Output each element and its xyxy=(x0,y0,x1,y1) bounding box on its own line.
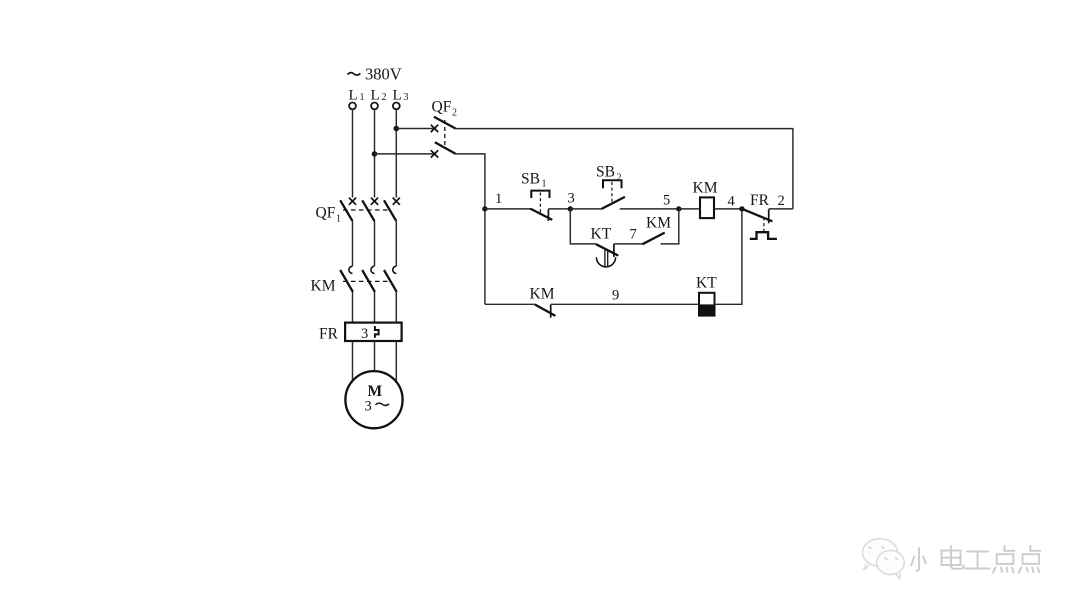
contactor KM main contact 3 xyxy=(384,266,397,292)
label L1 xyxy=(349,88,365,104)
junction L2 to QF2 pole2 xyxy=(372,151,378,157)
watermark icon bubbles xyxy=(863,539,905,579)
svg-text:3: 3 xyxy=(365,399,372,415)
svg-text:3: 3 xyxy=(404,92,409,103)
svg-text:SB: SB xyxy=(521,171,540,188)
svg-text:QF: QF xyxy=(432,99,452,116)
contactor KM NC contact xyxy=(535,305,556,318)
label L2 xyxy=(371,88,387,104)
node 5 junction xyxy=(676,206,681,211)
wire QF1 pole2 to KM xyxy=(374,221,376,266)
wire KM coil to node4 xyxy=(714,208,742,210)
svg-text:KM: KM xyxy=(311,278,336,295)
wire QF2 pole2 to node 1 xyxy=(456,154,485,209)
terminal L1 xyxy=(349,103,356,110)
svg-text:1: 1 xyxy=(336,214,341,225)
wire node3 to SB2 xyxy=(570,208,602,210)
wire FR to motor phase3 xyxy=(395,341,397,381)
time relay coil KT xyxy=(698,293,715,317)
svg-text:380V: 380V xyxy=(365,65,402,84)
junction L3 to QF2 pole1 xyxy=(394,126,400,132)
wire L3 to QF2 pole1 xyxy=(396,128,436,130)
motor M xyxy=(345,371,402,428)
svg-text:7: 7 xyxy=(630,227,637,243)
svg-text:FR: FR xyxy=(319,326,339,343)
watermark text 点 (first) xyxy=(993,546,1015,573)
wire KM3 to FR box xyxy=(395,292,397,323)
svg-text:KT: KT xyxy=(696,275,717,292)
svg-text:3: 3 xyxy=(568,191,575,207)
wire KM aux to node5 xyxy=(661,209,679,244)
thermal relay FR heater box xyxy=(345,323,402,341)
wire L3 vertical xyxy=(395,109,397,197)
svg-text:2: 2 xyxy=(452,108,457,119)
wire KT coil up to node4 xyxy=(715,209,742,304)
wire L2 to QF2 pole2 xyxy=(375,153,437,155)
svg-text:M: M xyxy=(368,383,383,400)
wire SB1 to node3 xyxy=(548,208,570,210)
FR heater element symbol xyxy=(375,326,379,338)
svg-text:5: 5 xyxy=(663,193,670,209)
wire QF1 pole1 to KM xyxy=(352,221,354,266)
pushbutton SB1 label xyxy=(521,171,547,190)
svg-text:2: 2 xyxy=(778,193,785,209)
svg-text:KM: KM xyxy=(530,286,555,303)
pushbutton SB1 (NC) xyxy=(530,191,552,221)
thermal relay FR contact (NC) xyxy=(743,209,777,239)
wire FR contact to right vertical xyxy=(769,208,793,210)
wire KM2 to FR box xyxy=(374,292,376,323)
svg-text:KM: KM xyxy=(693,180,718,197)
node 3 junction xyxy=(568,206,573,211)
watermark text 电 xyxy=(942,546,964,569)
wire FR to motor phase2 xyxy=(374,341,376,371)
terminal L2 xyxy=(371,103,378,110)
svg-text:L: L xyxy=(349,88,358,104)
svg-text:1: 1 xyxy=(495,191,502,207)
contactor KM aux contact (NO) xyxy=(643,233,665,245)
wire left rail to KM NC xyxy=(485,303,535,305)
pushbutton SB2 (NO) xyxy=(602,180,625,209)
time relay KT delayed contact xyxy=(596,244,618,267)
svg-text:QF: QF xyxy=(316,205,336,222)
svg-text:FR: FR xyxy=(750,192,770,209)
svg-text:2: 2 xyxy=(382,92,387,103)
pushbutton SB2 label xyxy=(596,164,622,184)
wire L2 vertical xyxy=(374,109,376,197)
svg-text:SB: SB xyxy=(596,164,615,181)
breaker QF1 linkage dashed xyxy=(343,209,391,211)
svg-text:3: 3 xyxy=(361,326,368,342)
wire node1 to SB1 xyxy=(485,208,531,210)
breaker QF1 pole 2 xyxy=(362,198,378,222)
contactor KM main contact 1 xyxy=(340,266,353,292)
svg-text:KT: KT xyxy=(591,226,612,243)
node 1 junction xyxy=(482,206,487,211)
wire node1 down left rail xyxy=(484,209,486,304)
label L3 xyxy=(393,88,409,104)
breaker QF2 linkage dashed xyxy=(444,120,446,148)
breaker QF2 label xyxy=(432,99,458,119)
wire L1 vertical xyxy=(352,109,354,197)
wire FR to motor phase1 xyxy=(352,341,354,381)
wire top bus QF2 pole1 to FR right xyxy=(456,129,793,209)
watermark text 点 (second) xyxy=(1019,546,1041,573)
svg-text:L: L xyxy=(393,88,402,104)
terminal L3 xyxy=(393,103,400,110)
contactor KM main contact 2 xyxy=(362,266,375,292)
breaker QF1 pole 3 xyxy=(384,198,400,222)
breaker QF1 label xyxy=(316,205,342,225)
watermark text 小 xyxy=(911,548,926,571)
svg-text:4: 4 xyxy=(728,194,736,210)
svg-text:L: L xyxy=(371,88,380,104)
svg-text:1: 1 xyxy=(360,92,365,103)
label ~380V xyxy=(348,65,402,84)
watermark text 工 xyxy=(965,552,989,569)
wire KT contact to KM aux xyxy=(614,243,643,245)
node 4 junction xyxy=(739,206,744,211)
breaker QF2 pole 1 xyxy=(431,117,456,132)
contactor coil KM xyxy=(700,197,714,218)
wire KM NC to KT coil xyxy=(551,303,699,305)
svg-text:KM: KM xyxy=(646,215,671,232)
svg-text:1: 1 xyxy=(542,179,547,190)
wire QF1 pole3 to KM xyxy=(395,221,397,266)
watermark icon eyes xyxy=(869,547,899,560)
breaker QF1 pole 1 xyxy=(340,198,356,222)
wire KM1 to FR box xyxy=(352,292,354,323)
breaker QF2 pole 2 xyxy=(431,142,456,157)
svg-text:9: 9 xyxy=(612,288,619,304)
wire node3 down to KT branch xyxy=(570,209,596,244)
contactor KM linkage dashed xyxy=(343,280,391,282)
wire node5 to KM coil xyxy=(679,208,700,210)
wire SB2 to node5 xyxy=(620,208,679,210)
